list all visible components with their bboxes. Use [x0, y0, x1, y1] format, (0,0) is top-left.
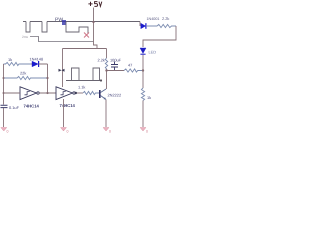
junction collector branch: [105, 69, 107, 71]
wire gnd pin gate2: [63, 99, 65, 127]
svg-text:2.2k: 2.2k: [162, 16, 169, 21]
svg-text:0: 0: [67, 130, 69, 134]
svg-text:1k: 1k: [8, 57, 12, 62]
node dot end of baseline: [100, 79, 102, 81]
svg-text:0: 0: [7, 130, 9, 134]
wire right loop: [143, 26, 176, 47]
node marker on rail: [62, 20, 66, 25]
power +5V label: [88, 2, 101, 7]
resistor R7 2.2k vertical: [105, 58, 107, 71]
junction dot gate2 output: [75, 92, 77, 94]
svg-text:0: 0: [109, 130, 111, 134]
node VCC rail / waveform W1 top line: [23, 21, 140, 23]
ground GND3: [103, 128, 111, 134]
resistor R5 2.2k: [146, 24, 176, 27]
marker bowtie on vcc wire: [59, 69, 65, 72]
svg-text:2N2222: 2N2222: [108, 93, 122, 98]
svg-text:100uF: 100uF: [110, 58, 122, 63]
svg-text:LED: LED: [149, 50, 157, 55]
svg-text:22k: 22k: [20, 71, 26, 76]
junction 5V rail: [93, 21, 95, 23]
ground GND1: [1, 128, 9, 134]
wire left rail: [3, 64, 5, 105]
capacitor C2 100uF: [111, 62, 118, 71]
LED D3: [140, 48, 146, 54]
svg-text:1N4001: 1N4001: [147, 17, 160, 21]
transistor Q1 2N2222: [100, 89, 106, 100]
wire to ground: [142, 101, 144, 128]
wire collector vertical: [106, 49, 108, 59]
resistor R3 1.1k: [83, 91, 99, 94]
wire emitter to ground: [105, 100, 107, 128]
wire LED branch horizontal: [107, 70, 125, 72]
probe marker X red: [84, 33, 89, 38]
wire feedback vertical: [47, 64, 49, 93]
waveform W2 pulse 2: [93, 68, 100, 81]
wire LED to junction: [142, 55, 144, 88]
waveform W1 dip 1: [26, 22, 30, 33]
waveform W1 dip 2: [42, 22, 47, 33]
svg-text:74HC14: 74HC14: [60, 103, 76, 108]
op-amp U1A 74HC14: [4, 87, 57, 100]
diode D2 1N4001: [140, 22, 146, 29]
ground GND4: [140, 128, 148, 134]
svg-text:1.1k: 1.1k: [78, 85, 85, 90]
op-amp U1B 74HC14: [56, 87, 83, 100]
resistor R1 1k: [4, 62, 32, 65]
wire annotation lower route: [30, 37, 94, 42]
svg-text:0: 0: [146, 130, 148, 134]
waveform W2 baseline: [66, 80, 101, 82]
svg-text:1N4148: 1N4148: [30, 57, 44, 62]
junction LED column: [142, 69, 144, 71]
capacitor C1 0.1uF: [1, 105, 8, 127]
resistor R2 22k: [4, 76, 48, 79]
wire vcc pin gate2: [62, 49, 64, 88]
wire 5V vertical: [94, 8, 98, 49]
svg-text:47: 47: [128, 63, 132, 68]
svg-text:7: 7: [65, 104, 67, 108]
resistor R6 1k vertical: [141, 88, 144, 101]
svg-text:1k: 1k: [147, 95, 151, 100]
ground GND2: [61, 128, 69, 134]
svg-text:2ms: 2ms: [22, 35, 28, 39]
svg-text:2.2k: 2.2k: [98, 58, 105, 63]
wire staircase annotation below rail: [66, 22, 88, 34]
svg-text:0.1uF: 0.1uF: [9, 105, 20, 110]
diode D1 1N4148: [31, 61, 48, 67]
wire collector rail y48: [63, 48, 107, 50]
svg-text:74HC14: 74HC14: [24, 104, 40, 109]
waveform W2 pulse 1: [72, 68, 80, 81]
resistor R4 47: [124, 69, 143, 72]
junction dots feedback: [46, 77, 48, 79]
